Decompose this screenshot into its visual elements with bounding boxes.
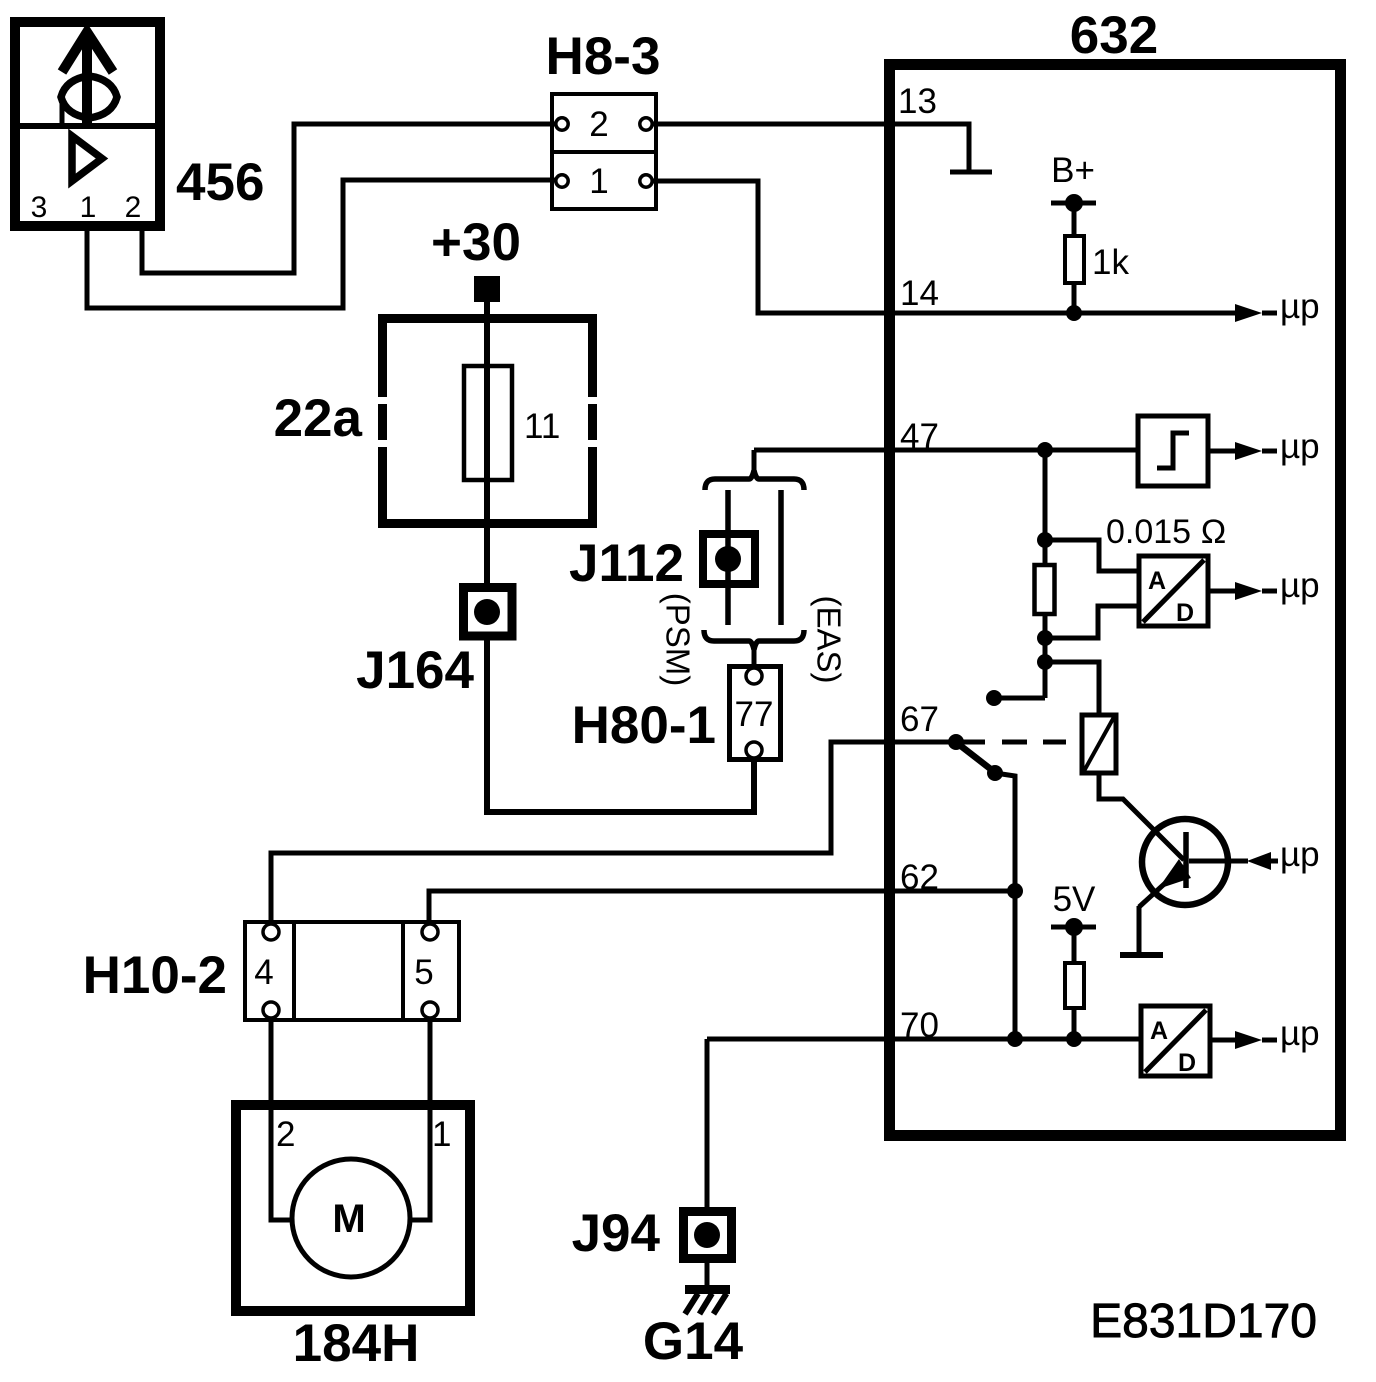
svg-text:1: 1 xyxy=(432,1115,451,1154)
wire H10-2 pin4 to motor pin2 xyxy=(271,1018,292,1220)
svg-text:µp: µp xyxy=(1280,287,1320,326)
wire pin 67 to switch and out to H10-2 xyxy=(271,742,956,923)
junction dots on shunt net xyxy=(1037,532,1053,548)
switch common dot pin67 xyxy=(948,734,964,750)
transistor emitter with arrow xyxy=(1139,866,1184,907)
svg-text:13: 13 xyxy=(898,82,937,121)
svg-text:2: 2 xyxy=(276,1115,295,1154)
vertical net from pin47 junction to shunt xyxy=(1043,450,1048,698)
underbrace below J112 xyxy=(704,630,804,650)
svg-text:67: 67 xyxy=(900,700,939,739)
svg-text:A: A xyxy=(1150,1017,1168,1045)
component 456 siren/sensor outer box xyxy=(15,22,160,226)
svg-text:M: M xyxy=(332,1197,365,1241)
wire +30 into fusebox xyxy=(484,302,490,366)
stub from overbrace to pin47 wire xyxy=(752,450,757,471)
ground at transistor emitter xyxy=(1120,952,1163,958)
wire pin 47 xyxy=(754,448,1138,453)
456 pin labels 3 1 2 xyxy=(31,191,142,224)
svg-text:184H: 184H xyxy=(293,1314,420,1373)
svg-text:µp: µp xyxy=(1280,427,1320,466)
svg-text:G14: G14 xyxy=(643,1312,744,1371)
wire resistor to pin70 line xyxy=(1072,1008,1077,1039)
wire H8-3 pin1 to 632 pin14 xyxy=(652,181,1235,313)
H10-2 pin circles xyxy=(263,924,279,940)
456 internal divider xyxy=(10,123,165,129)
svg-text:632: 632 xyxy=(1070,6,1158,65)
resistor 1k xyxy=(1065,236,1084,283)
wire PSM branch xyxy=(725,490,731,625)
arrow to microprocessor A/D 1 xyxy=(1208,589,1235,594)
456 arrow symbol (upper cell) xyxy=(82,38,92,123)
svg-text:(EAS): (EAS) xyxy=(811,595,848,683)
svg-text:J94: J94 xyxy=(572,1204,661,1263)
switch lower contact dot xyxy=(987,765,1003,781)
chassis ground G14 symbol xyxy=(685,1285,730,1294)
svg-text:2: 2 xyxy=(589,105,608,144)
switch arm xyxy=(957,743,997,774)
relay coil box xyxy=(1082,715,1116,773)
connector H80-1 xyxy=(730,667,781,760)
svg-text:1: 1 xyxy=(589,162,608,201)
ground at pin 13 xyxy=(950,170,992,175)
svg-text:µp: µp xyxy=(1280,1014,1320,1053)
wire H8-3 pin2 to 632 pin13 with internal ground stub xyxy=(652,124,969,170)
wire pin62 into box xyxy=(884,889,1015,894)
wire pin 70 from J94 to A/D 2 xyxy=(707,1037,1141,1042)
wire J94 up to pin70 xyxy=(705,1039,710,1207)
wire B+ to resistor 1k xyxy=(1072,203,1077,236)
svg-text:0.015 Ω: 0.015 Ω xyxy=(1106,513,1227,551)
wire to switch upper contact xyxy=(994,696,1045,701)
motor M circle xyxy=(292,1159,410,1277)
transistor base bar xyxy=(1183,832,1189,888)
svg-text:µp: µp xyxy=(1280,566,1320,605)
svg-text:3: 3 xyxy=(31,191,48,224)
wire 5V to pullup resistor xyxy=(1072,927,1077,963)
svg-text:E831D170: E831D170 xyxy=(1090,1295,1317,1348)
fuse 11 element xyxy=(464,366,512,480)
transistor base lead and arrow from microprocessor xyxy=(1189,859,1248,864)
svg-text:+30: +30 xyxy=(431,213,521,272)
svg-text:H80-1: H80-1 xyxy=(572,696,716,755)
svg-text:2: 2 xyxy=(125,191,142,224)
svg-text:5: 5 xyxy=(414,953,433,992)
svg-text:11: 11 xyxy=(524,407,560,446)
arrow to microprocessor pin47 xyxy=(1208,449,1235,454)
switch upper contact dot xyxy=(986,690,1002,706)
svg-text:D: D xyxy=(1178,1049,1196,1077)
wire shunt top to A/D input xyxy=(1045,540,1139,571)
A/D converter box 1 xyxy=(1139,556,1208,626)
wire H10-2 pin5 to motor pin1 xyxy=(410,1018,430,1220)
456 triangle sounder symbol (lower cell) xyxy=(72,136,102,181)
connector H8-3 box xyxy=(552,94,656,209)
svg-text:H10-2: H10-2 xyxy=(83,946,227,1005)
junction dot pin70/switch net xyxy=(1007,1031,1023,1047)
wire 456 pin1 to H8-3 pin1 xyxy=(87,180,556,308)
wire shunt bottom to A/D input xyxy=(1045,606,1139,638)
svg-text:14: 14 xyxy=(900,274,939,313)
arrow to microprocessor pin14 xyxy=(1235,304,1262,322)
wire coil to transistor collector xyxy=(1099,773,1184,860)
junction dot pullup/pin70 xyxy=(1066,1031,1082,1047)
+30 feed square xyxy=(474,276,500,302)
wire 456 pin2 to H8-3 pin2 xyxy=(142,124,556,273)
456 ellipse stem xyxy=(60,97,65,123)
svg-text:5V: 5V xyxy=(1053,880,1096,919)
svg-text:µp: µp xyxy=(1280,835,1320,874)
ECU box 632 xyxy=(890,65,1341,1136)
wire pin 62 xyxy=(429,891,894,923)
svg-text:J112: J112 xyxy=(569,534,684,593)
H8-3 pin circles xyxy=(556,118,568,130)
connector H10-2 box xyxy=(245,922,459,1020)
overbrace above J112 xyxy=(705,471,804,491)
motor box 184H xyxy=(236,1105,470,1311)
wire fuse to J164 xyxy=(484,480,490,583)
456 ellipse of symbol xyxy=(61,76,117,118)
wire to relay coil xyxy=(1045,662,1099,715)
dashed mechanical link xyxy=(956,740,1080,745)
svg-text:B+: B+ xyxy=(1051,151,1095,190)
junction dot pin14/1k xyxy=(1066,305,1082,321)
stub underbrace to H80-1 xyxy=(752,650,757,666)
H8-3 divider xyxy=(552,150,656,154)
shunt resistor 0.015 xyxy=(1035,565,1055,614)
svg-text:D: D xyxy=(1176,599,1194,627)
svg-text:J164: J164 xyxy=(356,641,474,700)
svg-text:1: 1 xyxy=(80,191,97,224)
arrow to microprocessor A/D 2 xyxy=(1210,1038,1235,1043)
wire resistor to pin14 line xyxy=(1072,283,1077,313)
junction dot pin62 xyxy=(1007,883,1023,899)
svg-text:4: 4 xyxy=(254,953,273,992)
connector J94 xyxy=(684,1212,732,1259)
pullup resistor at 5V xyxy=(1065,963,1084,1008)
wire J164 to H80-1 pin 77 xyxy=(487,640,754,812)
schmitt trigger box xyxy=(1138,416,1208,486)
wire switch contact down to pin70 line xyxy=(995,773,1015,1039)
svg-text:22a: 22a xyxy=(274,389,363,448)
transistor Q circle xyxy=(1142,819,1228,905)
connector J164 xyxy=(464,588,513,637)
junction dot pin47 xyxy=(1037,442,1053,458)
connector J112 xyxy=(703,534,755,584)
svg-text:456: 456 xyxy=(176,153,264,212)
svg-text:A: A xyxy=(1148,567,1166,595)
svg-text:H8-3: H8-3 xyxy=(546,27,661,86)
svg-text:(PSM): (PSM) xyxy=(660,593,697,687)
A/D converter box 2 xyxy=(1141,1006,1210,1076)
wire J94 to ground G14 xyxy=(705,1259,710,1285)
svg-text:77: 77 xyxy=(735,695,774,734)
fusebox 22a dashed border xyxy=(378,319,597,524)
svg-text:1k: 1k xyxy=(1092,243,1129,282)
wire EAS branch xyxy=(778,490,784,625)
